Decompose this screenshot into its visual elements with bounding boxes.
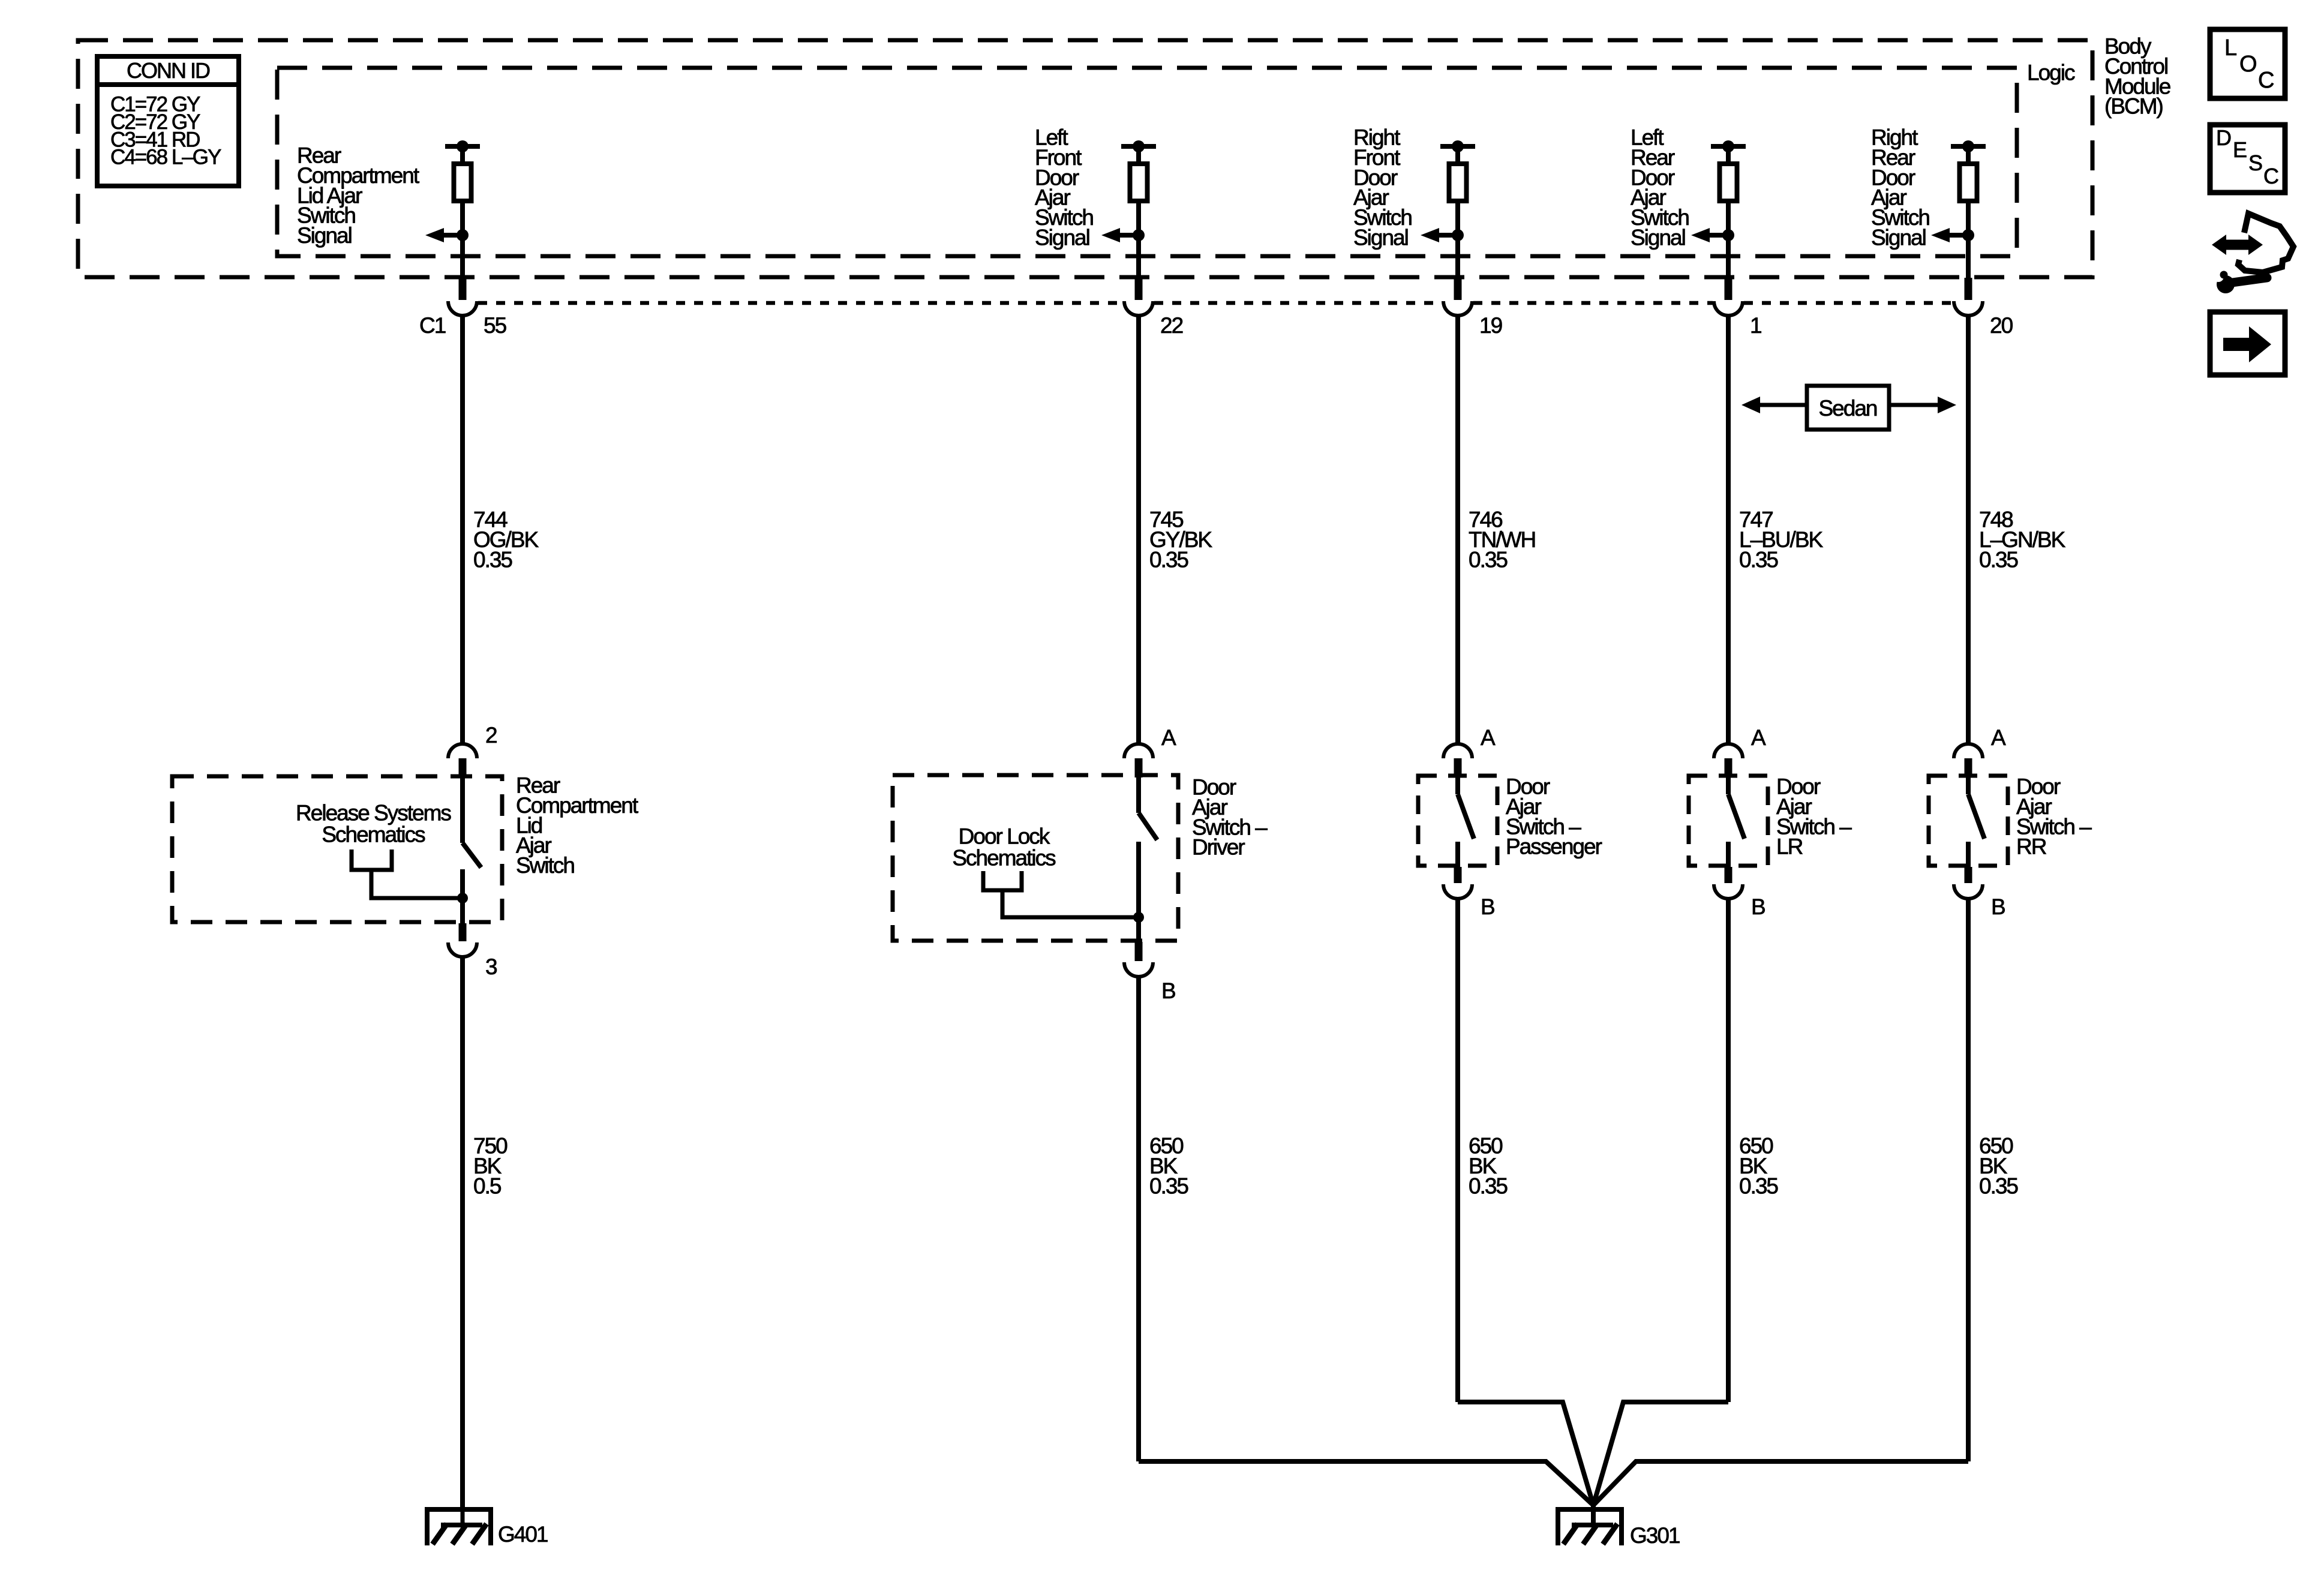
svg-text:C1: C1: [419, 313, 446, 338]
svg-text:A: A: [1161, 725, 1176, 750]
svg-text:3: 3: [485, 954, 497, 979]
svg-text:A: A: [1481, 725, 1496, 750]
signal tap arrow: [1439, 233, 1458, 238]
connector pin A (Door Ajar Switch - RR): [1954, 744, 1983, 758]
svg-text:Signal: Signal: [1871, 226, 1926, 250]
icon DESC box: [2210, 125, 2285, 193]
svg-text:Signal: Signal: [1035, 226, 1089, 250]
svg-text:Switch: Switch: [516, 853, 574, 878]
svg-text:2: 2: [485, 723, 497, 748]
wire (BCM internal pull-up feed): [1136, 146, 1141, 256]
svg-text:C: C: [2258, 68, 2274, 93]
svg-text:Sedan: Sedan: [1819, 396, 1877, 421]
svg-text:19: 19: [1479, 313, 1502, 338]
svg-text:55: 55: [484, 313, 507, 338]
connector C1 pin 22: [1136, 256, 1141, 280]
wrench part: [2217, 275, 2235, 293]
connector C1 pin 55: [460, 256, 465, 280]
svg-text:A: A: [1751, 725, 1766, 750]
ground G401: [425, 1507, 493, 1512]
svg-text:B: B: [1161, 978, 1175, 1003]
CONN ID table: [97, 56, 239, 186]
svg-text:S: S: [2248, 151, 2262, 175]
wire RR branch to G301: [1593, 1461, 1968, 1505]
svg-text:Driver: Driver: [1192, 835, 1245, 860]
icon LOC box: [2210, 29, 2285, 98]
connector pin B: [1454, 867, 1462, 883]
switch blade (rear compartment lid ajar switch): [460, 776, 465, 843]
wire 650 BK 0.35 (lr): [1726, 899, 1731, 1402]
svg-text:E: E: [2233, 137, 2247, 162]
svg-text:0.35: 0.35: [1149, 1173, 1188, 1198]
resistor (pull-up): [1960, 164, 1977, 201]
svg-text:Passenger: Passenger: [1506, 834, 1602, 859]
wire 748 L&#8211;GN/BK 0.35: [1966, 316, 1971, 744]
svg-text:0.35: 0.35: [1979, 547, 2018, 572]
wire 744 OG/BK 0.35: [460, 316, 465, 744]
connector pin 2 (Rear Compartment Lid Ajar Switch): [448, 744, 477, 758]
Body Control Module (BCM) outer dashed box: [78, 40, 2092, 277]
svg-text:CONN ID: CONN ID: [127, 58, 210, 83]
connector pin 3: [459, 923, 467, 941]
icon hand with wrench (double arrow): [2223, 240, 2251, 250]
signal tap arrow: [444, 233, 463, 238]
wire driver branch to G301: [1139, 1461, 1593, 1505]
svg-text:B: B: [1991, 894, 2005, 919]
svg-text:22: 22: [1160, 313, 1183, 338]
connector pin B: [1965, 867, 1972, 883]
ground G301: [1591, 1505, 1596, 1527]
switch blade (door ajar switch lr): [1726, 776, 1731, 794]
connector C1 pin 20: [1966, 256, 1971, 280]
svg-text:RR: RR: [2016, 834, 2046, 859]
svg-text:Signal: Signal: [1631, 226, 1685, 250]
wire (BCM internal pull-up feed): [1966, 146, 1971, 256]
signal tap arrow: [1950, 233, 1968, 238]
wire 746 TN/WH 0.35: [1455, 316, 1460, 744]
wire (to release systems schematics): [371, 870, 463, 898]
wire (BCM internal pull-up feed): [460, 146, 465, 256]
BCM Logic inner dashed box: [277, 68, 2017, 256]
connector pin B: [1135, 942, 1143, 961]
node junction to Release Systems Schematics: [457, 893, 468, 903]
resistor (pull-up): [454, 164, 472, 201]
signal tap arrow: [1710, 233, 1728, 238]
resistor (pull-up): [1130, 164, 1148, 201]
switch blade (door ajar switch driver): [1136, 775, 1141, 813]
svg-text:LR: LR: [1776, 834, 1803, 859]
svg-text:1: 1: [1750, 313, 1761, 338]
svg-text:20: 20: [1990, 313, 2013, 338]
Door Ajar Switch - Passenger dashed box: [1418, 776, 1497, 866]
svg-text:G301: G301: [1630, 1523, 1680, 1548]
Door Ajar Switch - LR dashed box: [1689, 776, 1768, 866]
svg-text:B: B: [1751, 894, 1765, 919]
BCM harness connector row C1 (dotted): [478, 301, 1123, 305]
svg-text:D: D: [2216, 125, 2231, 150]
connector pin A (Door Ajar Switch - LR): [1714, 744, 1743, 758]
svg-text:0.5: 0.5: [473, 1173, 502, 1198]
resistor (pull-up): [1720, 164, 1737, 201]
Door Ajar Switch - Driver dashed box: [893, 775, 1178, 941]
wire LR branch to G301: [1593, 1402, 1728, 1505]
svg-text:B: B: [1481, 894, 1494, 919]
connector pin A (Door Ajar Switch - Driver): [1124, 744, 1153, 758]
connector C1 pin 1: [1726, 256, 1731, 280]
wire (BCM internal pull-up feed): [1726, 146, 1731, 256]
svg-text:C: C: [2263, 164, 2278, 188]
wire (BCM internal pull-up feed): [1455, 146, 1460, 256]
icon arrow box (continuation): [2210, 312, 2285, 375]
svg-text:Signal: Signal: [1353, 226, 1408, 250]
svg-text:0.35: 0.35: [473, 547, 512, 572]
svg-text:Door Lock: Door Lock: [959, 824, 1050, 849]
wire 750 BK 0.5: [460, 957, 465, 1507]
resistor (pull-up): [1449, 164, 1467, 201]
wire 650 BK 0.35 (passenger): [1455, 899, 1460, 1402]
wire 650 BK 0.35 (rr): [1966, 899, 1971, 1461]
Sedan applicability note: [1748, 403, 1807, 407]
Door Ajar Switch - RR dashed box: [1929, 776, 2008, 866]
svg-text:Schematics: Schematics: [952, 846, 1056, 870]
svg-text:0.35: 0.35: [1739, 547, 1778, 572]
Rear Compartment Lid Ajar Switch dashed box: [172, 776, 502, 922]
svg-text:L: L: [2224, 35, 2236, 61]
svg-text:Schematics: Schematics: [322, 822, 425, 847]
svg-text:0.35: 0.35: [1979, 1173, 2018, 1198]
wire 745 GY/BK 0.35: [1136, 316, 1141, 744]
svg-text:0.35: 0.35: [1739, 1173, 1778, 1198]
connector pin A (Door Ajar Switch - Passenger): [1443, 744, 1472, 758]
wire 747 L&#8211;BU/BK 0.35: [1726, 316, 1731, 744]
svg-text:G401: G401: [498, 1522, 548, 1547]
node junction to Door Lock Schematics: [1133, 912, 1144, 923]
wire (to door lock schematics): [1002, 890, 1139, 917]
svg-text:(BCM): (BCM): [2104, 94, 2163, 119]
wire passenger branch to G301: [1458, 1402, 1593, 1505]
connector C1 pin 19: [1455, 256, 1460, 280]
switch blade (door ajar switch passenger): [1455, 776, 1460, 794]
svg-text:0.35: 0.35: [1149, 547, 1188, 572]
svg-text:Signal: Signal: [297, 223, 352, 248]
switch blade (door ajar switch rr): [1966, 776, 1971, 794]
svg-text:Release Systems: Release Systems: [296, 801, 451, 825]
connector pin B: [1725, 867, 1733, 883]
svg-text:0.35: 0.35: [1469, 1173, 1508, 1198]
svg-text:O: O: [2239, 52, 2256, 77]
wire 650 BK 0.35 (driver): [1136, 977, 1141, 1461]
svg-text:C4=68 L–GY: C4=68 L–GY: [110, 146, 221, 169]
svg-text:Logic: Logic: [2027, 61, 2075, 85]
signal tap arrow: [1120, 233, 1139, 238]
svg-text:A: A: [1991, 725, 2006, 750]
svg-text:0.35: 0.35: [1469, 547, 1508, 572]
